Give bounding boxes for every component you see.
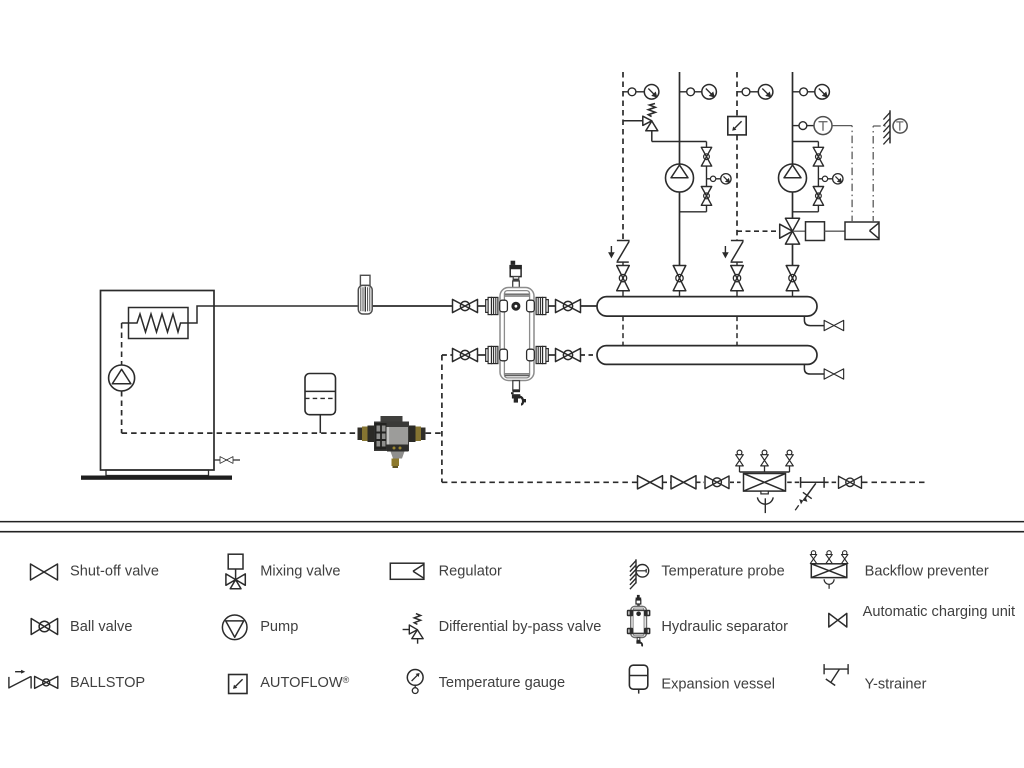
svg-text:BALLSTOP: BALLSTOP xyxy=(70,675,145,691)
svg-text:Regulator: Regulator xyxy=(439,564,502,580)
svg-text:Automatic charging unit: Automatic charging unit xyxy=(863,604,1016,620)
svg-text:Shut-off valve: Shut-off valve xyxy=(70,564,159,580)
svg-text:Ball valve: Ball valve xyxy=(70,619,132,635)
svg-text:Hydraulic separator: Hydraulic separator xyxy=(661,619,788,635)
svg-text:Mixing valve: Mixing valve xyxy=(260,564,340,580)
svg-text:AUTOFLOW®: AUTOFLOW® xyxy=(260,675,349,691)
svg-text:Expansion vessel: Expansion vessel xyxy=(661,676,775,692)
svg-text:Pump: Pump xyxy=(260,619,298,635)
svg-text:Differential by-pass valve: Differential by-pass valve xyxy=(439,619,602,635)
svg-text:Temperature gauge: Temperature gauge xyxy=(439,675,566,691)
svg-text:Y-strainer: Y-strainer xyxy=(865,676,927,692)
svg-text:Backflow preventer: Backflow preventer xyxy=(865,564,989,580)
svg-text:Temperature probe: Temperature probe xyxy=(661,564,784,580)
